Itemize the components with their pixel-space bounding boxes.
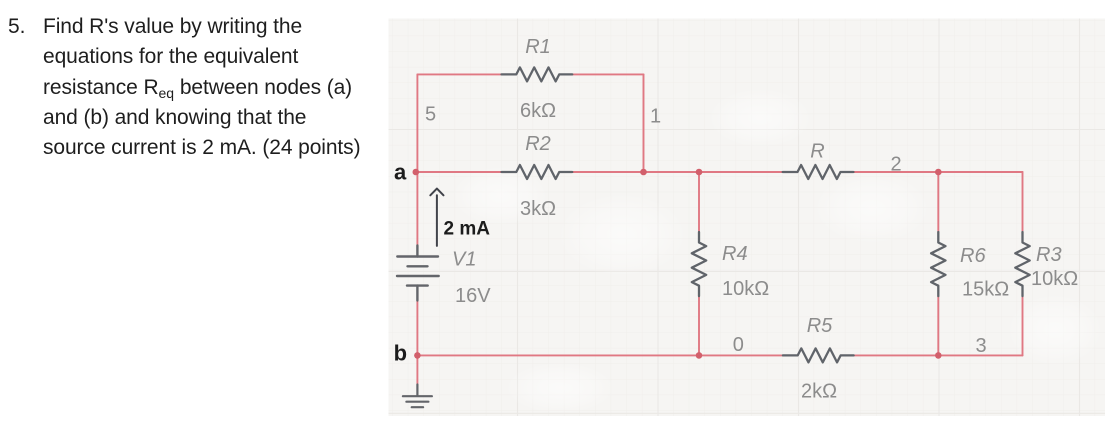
svg-text:R3: R3	[1036, 244, 1062, 266]
resistor R1	[502, 67, 573, 81]
svg-text:R1: R1	[525, 36, 551, 58]
wire: top horizontal left of R1	[417, 73, 501, 75]
node 1 junction dot	[640, 169, 647, 176]
major grid lines	[389, 19, 1105, 417]
resistor R	[783, 165, 854, 179]
svg-text:6kΩ: 6kΩ	[520, 100, 556, 122]
resistor R4	[692, 232, 706, 296]
resistor R2	[502, 165, 573, 179]
svg-text:15kΩ: 15kΩ	[962, 279, 1009, 301]
wire: battery bottom to b	[416, 301, 418, 356]
wire: node 1 vertical	[643, 74, 645, 172]
node b junction dot	[414, 352, 421, 359]
labels: gray component names	[425, 36, 1078, 403]
svg-text:a: a	[394, 160, 407, 185]
junction dot R6 bottom	[935, 352, 942, 359]
svg-text:b: b	[394, 340, 407, 365]
junction dot R4 top	[696, 169, 703, 176]
svg-text:3: 3	[975, 335, 986, 357]
resistor R5	[783, 348, 854, 362]
wire: R6 branch top	[937, 172, 939, 232]
svg-text:10kΩ: 10kΩ	[1031, 268, 1078, 290]
svg-text:R6: R6	[960, 245, 986, 267]
wire: R3 branch bottom	[1022, 296, 1024, 355]
svg-text:10kΩ: 10kΩ	[722, 278, 769, 300]
svg-text:R: R	[810, 141, 824, 163]
labels: black node names	[394, 160, 491, 366]
svg-text:2kΩ: 2kΩ	[801, 381, 837, 403]
wire: a to battery top	[416, 172, 418, 246]
svg-text:R4: R4	[722, 243, 748, 265]
svg-text:5: 5	[425, 104, 436, 126]
schematic canvas background	[389, 19, 1105, 417]
current arrow	[430, 189, 443, 246]
wire: R3 branch top	[1022, 172, 1024, 232]
wire: b to ground stub	[416, 355, 418, 384]
wire: top horizontal right of R1	[572, 73, 643, 75]
svg-text:2: 2	[890, 154, 901, 176]
node a junction dot	[413, 169, 420, 176]
wire: row a, left of R2	[416, 171, 502, 173]
wire: top-left vertical (node 5 branch)	[416, 74, 418, 172]
svg-text:V1: V1	[452, 249, 476, 271]
battery V1	[397, 246, 439, 301]
svg-text:R5: R5	[807, 315, 833, 337]
wire: row a, right of R to corner	[853, 171, 1022, 173]
svg-text:1: 1	[650, 106, 661, 128]
wire: bottom row left of R5	[417, 354, 783, 356]
wire: bottom row right of R5	[854, 354, 1023, 356]
resistor R6	[931, 232, 945, 296]
node 2 junction dot	[935, 169, 942, 176]
resistor R3	[1015, 232, 1029, 296]
svg-text:0: 0	[733, 334, 744, 356]
wire: R6 branch bottom	[937, 296, 939, 355]
svg-text:3kΩ: 3kΩ	[520, 198, 556, 220]
wire: R4 branch bottom	[698, 296, 700, 355]
wire: row a, R2 to R lead	[572, 171, 783, 173]
wire: R4 branch top	[698, 172, 700, 232]
svg-text:2 mA: 2 mA	[444, 219, 491, 240]
junction dot R4 bottom	[696, 352, 703, 359]
svg-text:16V: 16V	[455, 285, 491, 307]
question text	[0, 0, 390, 1]
svg-text:R2: R2	[525, 133, 551, 155]
ground	[403, 385, 432, 408]
